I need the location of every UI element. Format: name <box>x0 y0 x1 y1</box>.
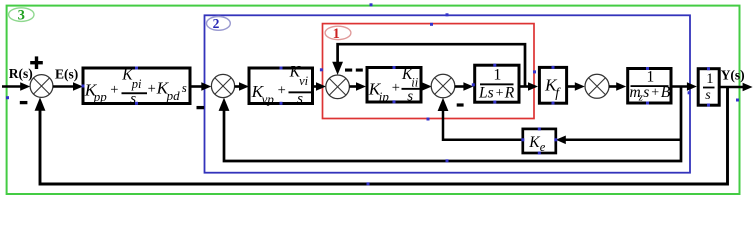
svg-text:vi: vi <box>299 74 309 88</box>
svg-text:2: 2 <box>213 16 220 31</box>
text PID: Kpd s <box>156 79 187 104</box>
svg-text:K: K <box>528 134 540 151</box>
label E(s) <box>55 66 78 81</box>
block Kf <box>539 67 566 103</box>
text mechanical numerator 1 <box>647 69 655 86</box>
text PID: plus2 <box>148 81 156 97</box>
svg-text:ii: ii <box>411 76 418 90</box>
label R(s) <box>9 66 33 81</box>
text electrical denominator Ls+R <box>478 85 515 102</box>
summing junction S1 <box>30 75 53 98</box>
text Kvp fraction Kvi over s <box>289 64 313 107</box>
svg-text:ip: ip <box>379 89 390 104</box>
text electrical bar <box>480 83 514 85</box>
svg-text:s: s <box>643 84 649 101</box>
text PID: Kpp <box>84 80 108 104</box>
svg-text:R(s): R(s) <box>9 66 33 81</box>
wire mechanical to integrator with tap <box>671 82 697 91</box>
summing junction S2 <box>211 74 234 97</box>
summing junction S4 <box>431 74 455 98</box>
svg-text:R: R <box>504 85 515 102</box>
wire Kvp to S3 <box>313 82 327 91</box>
wire S1 to PID block <box>53 82 83 91</box>
svg-text:+: + <box>496 86 504 101</box>
label Y(s) <box>721 68 745 83</box>
block Kip current PI <box>367 68 421 103</box>
red ellipse label 1 <box>325 26 351 42</box>
block mechanical 1/(mzs+B) <box>628 69 671 104</box>
svg-text:s: s <box>705 88 711 103</box>
green ellipse label 3 <box>9 8 34 24</box>
wire input R(s) <box>2 82 30 91</box>
svg-text:1: 1 <box>706 71 713 87</box>
svg-text:E(s): E(s) <box>55 66 78 81</box>
wire Ke to S4 from below <box>438 98 523 140</box>
wire Kf to S5 <box>567 82 585 91</box>
wire electrical to Kf with tap node <box>519 82 538 91</box>
wire S3 to Kip block <box>349 82 366 91</box>
svg-text:+: + <box>392 80 400 96</box>
svg-text:B: B <box>661 84 671 101</box>
block integrator 1/s <box>698 69 719 106</box>
svg-text:pp: pp <box>93 89 108 104</box>
svg-text:pi: pi <box>131 77 142 91</box>
anchor dots <box>6 3 739 185</box>
text Kip plus <box>392 80 400 96</box>
dashed minus near S3 <box>345 69 363 72</box>
text integrator 1 <box>706 71 713 87</box>
svg-text:Ls: Ls <box>478 85 494 102</box>
block electrical 1/(Ls+R) <box>475 65 519 102</box>
svg-text:pd: pd <box>166 88 181 103</box>
position feedback wire to S1 <box>35 87 728 184</box>
block PID position controller <box>83 68 190 104</box>
svg-text:+: + <box>651 86 659 101</box>
inner current-loop feedback wire <box>332 44 525 86</box>
summing junction S3 <box>326 75 350 99</box>
text integrator bar <box>703 87 715 89</box>
svg-text:z: z <box>638 92 643 103</box>
wire S5 to mechanical block <box>609 82 626 91</box>
svg-text:+: + <box>278 83 286 99</box>
svg-text:s: s <box>297 91 303 107</box>
svg-text:3: 3 <box>18 8 25 24</box>
text integrator s <box>705 88 711 103</box>
back-emf wire to Ke <box>556 136 681 145</box>
text PID: plus1 <box>110 82 118 98</box>
wire output Y(s) <box>719 83 752 92</box>
wire PID to S2 <box>190 82 211 91</box>
text Kvp plus <box>278 83 286 99</box>
summing junction S5 <box>585 74 609 98</box>
wire S2 to Kvp block <box>235 82 249 91</box>
svg-text:vp: vp <box>262 92 275 107</box>
block Kvp velocity PI <box>249 68 313 104</box>
text mechanical bar <box>631 85 669 87</box>
blue ellipse label 2 <box>207 16 231 31</box>
svg-text:1: 1 <box>493 66 501 83</box>
svg-text:s: s <box>182 80 187 95</box>
minus sign below-right of S4 <box>457 103 464 106</box>
text Kvp <box>251 82 275 107</box>
red box 1 <box>323 24 535 119</box>
svg-text:+: + <box>110 82 118 98</box>
svg-text:Y(s): Y(s) <box>721 68 745 83</box>
text Kip fraction Kii over s <box>401 66 421 105</box>
text Kip <box>368 79 390 104</box>
plus sign above S1 <box>30 56 43 69</box>
minus sign below-left of S2 <box>197 106 205 109</box>
blue box 2 <box>205 15 691 172</box>
text Kf <box>544 76 561 101</box>
speed feedback wire down to S2 <box>219 87 681 162</box>
svg-text:1: 1 <box>333 26 340 42</box>
svg-text:s: s <box>407 89 413 105</box>
outer green box 3 <box>7 6 740 194</box>
text Ke <box>528 134 546 154</box>
block Ke <box>523 129 556 153</box>
text PID: fraction Kpi over s <box>121 67 147 108</box>
wire Kip to S4 <box>421 82 432 91</box>
text electrical numerator 1 <box>493 66 501 83</box>
svg-text:+: + <box>148 81 156 97</box>
wire S4 to electrical block <box>455 82 474 91</box>
svg-text:1: 1 <box>647 69 655 86</box>
text mechanical denominator mzs+B <box>630 84 671 103</box>
minus sign below-left of S1 <box>20 101 28 104</box>
